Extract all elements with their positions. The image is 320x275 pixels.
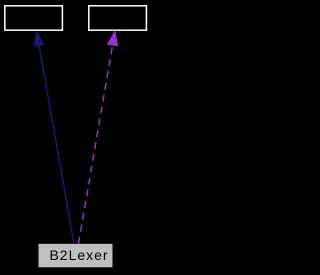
- inheritance arrow (solid midnightblue) wire: [39, 45, 74, 243]
- node box top-right (used class): [89, 6, 147, 30]
- svg-text:B2Lexer: B2Lexer: [50, 247, 108, 263]
- usage arrowhead: [108, 31, 118, 46]
- node B2Lexer: [39, 244, 113, 267]
- node box top-left (base class): [5, 6, 63, 30]
- usage arrow (dashed darkorchid) wire: [79, 45, 113, 244]
- inheritance arrowhead: [34, 32, 44, 47]
